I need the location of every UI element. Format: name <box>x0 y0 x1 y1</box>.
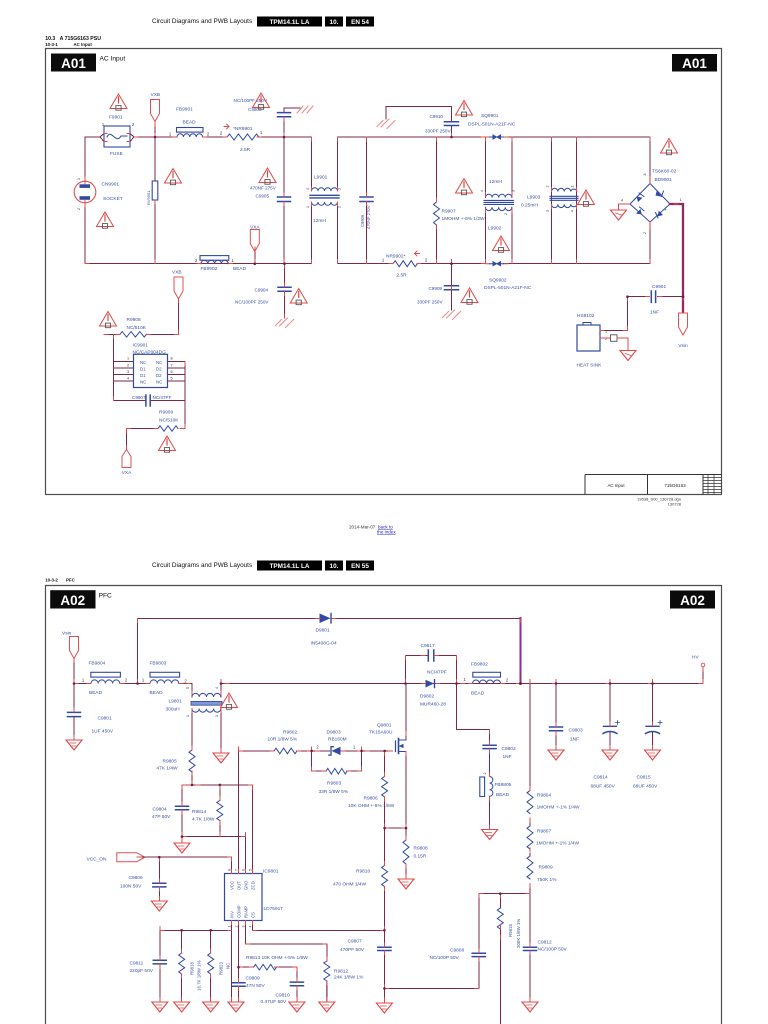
svg-text:68UF 450V: 68UF 450V <box>633 784 658 790</box>
wire RAMP net <box>246 921 327 962</box>
svg-text:AC Input: AC Input <box>100 56 126 63</box>
svg-text:1: 1 <box>571 186 575 188</box>
svg-text:3: 3 <box>546 210 550 212</box>
ground C9807 <box>376 1003 392 1013</box>
svg-text:C9808: C9808 <box>450 948 464 954</box>
svg-text:CN9901: CN9901 <box>102 182 120 188</box>
warning triangle below L9902 <box>493 236 510 252</box>
ground C9806 <box>151 901 167 911</box>
svg-text:3: 3 <box>338 188 342 190</box>
wire L9801 aux down <box>191 709 193 785</box>
warning triangle above C9905 <box>259 168 276 184</box>
svg-text:0.47UF 50V: 0.47UF 50V <box>261 999 287 1005</box>
title block <box>585 475 722 507</box>
svg-text:EN 55: EN 55 <box>351 563 369 570</box>
ground C9815 <box>645 750 661 760</box>
svg-text:715G6163: 715G6163 <box>664 483 686 488</box>
svg-text:C9909: C9909 <box>428 286 442 291</box>
svg-text:200K 1/8W 1%: 200K 1/8W 1% <box>516 919 521 948</box>
page 1 top header <box>45 17 374 47</box>
svg-text:C9806: C9806 <box>129 875 143 881</box>
svg-text:1: 1 <box>142 678 145 683</box>
warning triangle below socket <box>97 212 114 228</box>
svg-text:GND: GND <box>244 881 249 890</box>
wire R9907 vertical <box>436 137 438 264</box>
varistor RV9901 <box>152 181 158 200</box>
svg-text:PFC: PFC <box>66 578 76 583</box>
svg-text:3: 3 <box>242 926 246 928</box>
svg-text:1MOHM +-1% 1/4W: 1MOHM +-1% 1/4W <box>536 841 580 847</box>
svg-text:4: 4 <box>215 687 219 689</box>
svg-text:FB9901: FB9901 <box>176 107 193 113</box>
svg-text:1UF 450V: 1UF 450V <box>92 729 114 735</box>
svg-text:2: 2 <box>207 132 210 137</box>
svg-text:L9901: L9901 <box>314 175 328 181</box>
svg-text:R9815: R9815 <box>508 924 513 937</box>
svg-text:R9803: R9803 <box>327 781 341 787</box>
svg-text:2: 2 <box>316 745 319 750</box>
svg-text:1MOHM +-5% 1/2W: 1MOHM +-5% 1/2W <box>442 216 486 222</box>
svg-text:16.7K 1/8W 1%: 16.7K 1/8W 1% <box>197 960 202 991</box>
svg-text:BEAD: BEAD <box>471 691 485 697</box>
svg-text:2: 2 <box>338 206 342 208</box>
warning triangle right of L9903 <box>578 190 595 206</box>
svg-text:4.7K 1/8W: 4.7K 1/8W <box>192 817 215 823</box>
svg-text:HS9102: HS9102 <box>577 313 595 319</box>
ground C9803 <box>548 750 564 760</box>
svg-text:2: 2 <box>506 678 509 683</box>
svg-text:300uH: 300uH <box>166 707 181 713</box>
warning triangle near RV9901 <box>165 169 182 185</box>
wire L9801 right to ground <box>220 709 222 753</box>
ground R9812 <box>319 1002 335 1012</box>
ground C9810 <box>289 1002 305 1012</box>
svg-text:1: 1 <box>127 357 129 361</box>
svg-text:1NF: 1NF <box>503 754 512 760</box>
red terminal stubs page1 <box>85 117 683 450</box>
wire C9903 C9905 vertical <box>284 108 300 264</box>
svg-text:5: 5 <box>186 687 190 689</box>
wire C9909 stem <box>451 264 453 310</box>
earth ground C9910 <box>377 119 395 129</box>
svg-text:BEAD: BEAD <box>496 792 510 798</box>
svg-text:2: 2 <box>127 364 129 368</box>
svg-text:2: 2 <box>546 186 550 188</box>
svg-text:SQ9902: SQ9902 <box>489 278 507 284</box>
svg-text:D9803: D9803 <box>327 730 341 736</box>
svg-text:1: 1 <box>306 206 310 208</box>
svg-text:NC: NC <box>140 380 146 385</box>
wire L9903 cell verticals <box>552 137 577 264</box>
svg-text:1: 1 <box>680 198 682 202</box>
svg-text:8: 8 <box>228 869 232 871</box>
svg-text:BEAD: BEAD <box>233 266 247 272</box>
wire purple D9801 to rail <box>519 618 521 683</box>
svg-text:220pF 50V: 220pF 50V <box>130 968 154 974</box>
svg-text:F9901: F9901 <box>109 115 123 121</box>
svg-text:2: 2 <box>132 122 135 127</box>
wire VXB vertical <box>154 122 156 264</box>
svg-text:LD7591T: LD7591T <box>264 906 284 912</box>
svg-text:BD9901: BD9901 <box>655 177 673 183</box>
svg-text:NC/100P 50V: NC/100P 50V <box>430 955 460 961</box>
svg-text:68UF 450V: 68UF 450V <box>591 784 616 790</box>
svg-text:C9907: C9907 <box>132 395 146 400</box>
wire ZCD net <box>182 785 253 874</box>
svg-text:TK15A60U: TK15A60U <box>369 730 393 736</box>
svg-text:VCC_ON: VCC_ON <box>87 857 108 863</box>
svg-text:47N 50V: 47N 50V <box>246 983 265 989</box>
wire VCC net <box>137 857 232 873</box>
wire OUT pin to R9802 <box>238 751 240 874</box>
svg-text:7: 7 <box>171 364 173 368</box>
wire GND net to pin6 <box>182 837 246 874</box>
warning triangle above fuse <box>110 94 127 110</box>
svg-text:L9801: L9801 <box>169 699 183 705</box>
svg-text:2: 2 <box>77 208 81 210</box>
wire C9910 stem <box>386 107 452 138</box>
svg-text:R9818: R9818 <box>190 962 195 975</box>
svg-text:7: 7 <box>235 869 239 871</box>
svg-text:INV: INV <box>230 911 235 918</box>
svg-text:MUR460-28: MUR460-28 <box>420 702 446 708</box>
wire VXA stub <box>254 247 256 264</box>
A02 box right <box>670 591 715 609</box>
svg-text:TPM14.1L LA: TPM14.1L LA <box>269 563 309 570</box>
svg-text:A01: A01 <box>682 56 707 71</box>
svg-text:3: 3 <box>127 370 129 374</box>
flag VXA lower <box>126 429 128 451</box>
power ground heat sink <box>620 351 636 361</box>
svg-text:10-3-1: 10-3-1 <box>45 42 58 47</box>
svg-text:D1: D1 <box>140 367 146 372</box>
svg-text:+: + <box>665 208 668 213</box>
svg-text:2: 2 <box>184 679 187 684</box>
page 2 top header <box>45 561 374 583</box>
ground C9814 <box>602 750 618 760</box>
svg-text:TPM14.1L LA: TPM14.1L LA <box>269 19 309 26</box>
svg-text:D2: D2 <box>156 367 162 372</box>
bead FB9902 <box>200 256 229 261</box>
svg-text:2: 2 <box>195 258 198 263</box>
wire L9901 verticals <box>312 137 338 264</box>
svg-text:R9812: R9812 <box>334 969 348 975</box>
svg-text:C9904: C9904 <box>255 288 269 293</box>
svg-text:12mH: 12mH <box>489 179 502 185</box>
svg-text:IC9801: IC9801 <box>263 869 279 875</box>
warning triangle left of R9908 <box>100 312 117 328</box>
svg-text:2.5R: 2.5R <box>240 147 251 153</box>
svg-text:2: 2 <box>504 213 508 215</box>
svg-text:Q9801: Q9801 <box>377 723 392 729</box>
wire bridge left vertex to ground <box>619 204 631 210</box>
svg-text:IC9901: IC9901 <box>133 343 149 349</box>
svg-text:1: 1 <box>228 926 232 928</box>
ground R9823 <box>203 1002 219 1012</box>
svg-text:R9810: R9810 <box>356 869 370 875</box>
svg-text:4: 4 <box>127 377 129 381</box>
svg-text:24K 1/8W 1%: 24K 1/8W 1% <box>334 975 364 981</box>
svg-text:2014-Mar-07: 2014-Mar-07 <box>349 525 376 530</box>
svg-text:0.15R: 0.15R <box>414 854 427 860</box>
svg-text:C9906: C9906 <box>360 214 365 227</box>
svg-text:C9910: C9910 <box>429 114 443 119</box>
warning triangle near C9904 <box>290 289 307 305</box>
svg-text:C9804: C9804 <box>153 807 167 813</box>
warning triangle near C9903 <box>253 93 270 109</box>
svg-text:C9817: C9817 <box>421 643 435 649</box>
svg-text:HV: HV <box>692 655 699 661</box>
svg-text:2: 2 <box>220 131 223 136</box>
svg-text:330PF 250V: 330PF 250V <box>425 129 451 134</box>
wire left loop verticals <box>84 137 86 264</box>
svg-text:NC/510K: NC/510K <box>159 417 179 423</box>
svg-text:Vsin: Vsin <box>62 631 72 637</box>
svg-text:NC/510K: NC/510K <box>127 325 147 331</box>
svg-text:FB9804: FB9804 <box>89 661 106 667</box>
svg-text:D9801: D9801 <box>316 628 330 634</box>
svg-text:*NR9901: *NR9901 <box>233 126 253 132</box>
svg-text:C9905: C9905 <box>256 194 270 199</box>
ground C9801 <box>66 740 82 750</box>
svg-text:47K 1/4W: 47K 1/4W <box>157 766 179 772</box>
svg-text:NR9902*: NR9902* <box>386 254 406 260</box>
svg-text:2: 2 <box>425 258 428 263</box>
svg-text:1: 1 <box>260 130 263 135</box>
svg-text:330PF 250V: 330PF 250V <box>417 300 443 305</box>
svg-text:OUT: OUT <box>237 881 242 890</box>
svg-text:VCC: VCC <box>230 881 235 890</box>
page 2 frame (bottom cut off) <box>46 586 722 1024</box>
svg-text:A01: A01 <box>61 56 86 71</box>
power ground bridge <box>611 210 627 220</box>
svg-text:A02: A02 <box>60 593 85 608</box>
ground R9818 <box>174 1002 190 1012</box>
svg-text:470NF 275V: 470NF 275V <box>250 186 277 191</box>
svg-text:C9815: C9815 <box>637 775 651 781</box>
svg-text:C9812: C9812 <box>538 940 552 946</box>
svg-text:TS6K60-02: TS6K60-02 <box>652 169 677 175</box>
svg-text:6: 6 <box>242 869 246 871</box>
svg-text:R9813 10K OHM +-5% 1/8W: R9813 10K OHM +-5% 1/8W <box>246 955 308 961</box>
svg-text:DSPL-501N-A21F-NC: DSPL-501N-A21F-NC <box>484 285 532 291</box>
svg-text:0.25mH: 0.25mH <box>521 203 538 209</box>
svg-text:BEAD: BEAD <box>89 690 103 696</box>
warning triangle above bridge <box>661 139 678 155</box>
resistor NR9901 <box>224 124 229 129</box>
svg-text:SQ9901: SQ9901 <box>481 113 499 119</box>
svg-text:NC: NC <box>140 360 146 365</box>
svg-text:R9808: R9808 <box>414 846 428 852</box>
svg-text:5: 5 <box>171 377 173 381</box>
svg-text:470PF 50V: 470PF 50V <box>340 947 365 953</box>
svg-text:1: 1 <box>82 678 85 683</box>
svg-text:BEAD: BEAD <box>150 690 164 696</box>
svg-text:2.5R: 2.5R <box>397 273 408 279</box>
ground L9801 <box>213 753 229 763</box>
svg-text:2: 2 <box>643 232 647 234</box>
A01 box right <box>672 54 717 72</box>
svg-text:NC/47PF: NC/47PF <box>153 395 172 400</box>
A01 box left <box>51 54 96 72</box>
ground C9809 <box>228 1002 244 1012</box>
svg-text:10.: 10. <box>330 19 339 26</box>
svg-text:2: 2 <box>125 678 128 683</box>
svg-text:A02: A02 <box>680 593 705 608</box>
warning triangle near C9909 <box>461 288 478 304</box>
ground C9812 <box>522 1002 538 1012</box>
svg-text:10.: 10. <box>330 563 339 570</box>
svg-text:HEAT SINK: HEAT SINK <box>577 363 603 369</box>
ground C9804 <box>181 837 183 843</box>
svg-text:R9809: R9809 <box>539 865 553 871</box>
svg-text:FB9802: FB9802 <box>471 662 488 668</box>
svg-text:4: 4 <box>306 188 310 190</box>
svg-text:R9802: R9802 <box>283 730 297 736</box>
svg-text:1NF: 1NF <box>570 737 579 743</box>
svg-text:R9805: R9805 <box>163 759 177 765</box>
ground FB9805 <box>482 830 498 840</box>
wire main rail page2 <box>74 684 703 698</box>
svg-text:3: 3 <box>643 173 647 175</box>
svg-text:100N 50V: 100N 50V <box>120 884 142 890</box>
wire top rail right <box>338 136 651 138</box>
svg-text:the index: the index <box>377 530 396 535</box>
svg-text:D1: D1 <box>140 373 146 378</box>
svg-text:33R 1/8W 5%: 33R 1/8W 5% <box>319 789 349 795</box>
svg-text:2: 2 <box>483 773 487 775</box>
earth ground C9909 <box>443 310 461 320</box>
earth ground C9904 <box>276 318 294 328</box>
footer date + links <box>349 525 396 535</box>
svg-text:12mH: 12mH <box>313 218 326 224</box>
svg-text:C9803: C9803 <box>569 728 583 734</box>
svg-text:RB160M: RB160M <box>328 737 347 743</box>
svg-text:NC/100P 50V: NC/100P 50V <box>538 947 568 953</box>
wire C9801 stem <box>73 684 75 740</box>
svg-text:C9809: C9809 <box>246 976 260 982</box>
svg-text:PFC: PFC <box>99 593 112 600</box>
wire C9904 stem <box>284 264 286 318</box>
junction dots page1 <box>154 136 685 298</box>
svg-text:R9804: R9804 <box>537 793 551 799</box>
svg-text:C9807: C9807 <box>348 939 362 945</box>
svg-text:47P 50V: 47P 50V <box>152 814 171 820</box>
svg-text:FB9805: FB9805 <box>495 782 512 788</box>
svg-text:EN 54: EN 54 <box>351 19 369 26</box>
svg-text:10R 1/8W 5%: 10R 1/8W 5% <box>268 737 298 743</box>
svg-text:IN5408G-04: IN5408G-04 <box>311 641 337 647</box>
svg-text:R9807: R9807 <box>537 829 551 835</box>
wire bridge cell <box>649 137 651 264</box>
wire CS net <box>253 921 385 931</box>
svg-text:1: 1 <box>186 715 190 717</box>
svg-text:COMP: COMP <box>237 905 242 918</box>
svg-text:5: 5 <box>249 869 253 871</box>
svg-text:1: 1 <box>353 745 356 750</box>
svg-text:1: 1 <box>605 330 607 334</box>
svg-text:3: 3 <box>512 190 516 192</box>
svg-text:1: 1 <box>382 258 385 263</box>
svg-text:6: 6 <box>171 370 173 374</box>
svg-text:R9823: R9823 <box>219 962 224 975</box>
svg-text:4: 4 <box>249 926 253 928</box>
svg-text:AC Input: AC Input <box>607 483 625 488</box>
svg-text:RV9901: RV9901 <box>146 190 151 205</box>
svg-text:C9810: C9810 <box>276 993 290 999</box>
red terminal stubs page2 <box>74 618 703 1002</box>
svg-text:10-3-2: 10-3-2 <box>45 578 58 583</box>
svg-text:3: 3 <box>215 715 219 717</box>
svg-text:C9801: C9801 <box>98 716 112 722</box>
svg-text:VXB: VXB <box>151 92 161 98</box>
warning triangle below R9909 <box>159 436 176 452</box>
wire bridge output thick purple <box>670 204 683 312</box>
svg-text:SOCKET: SOCKET <box>103 196 123 202</box>
svg-text:FB9803: FB9803 <box>150 661 167 667</box>
svg-text:Circuit Diagrams and PWB Layou: Circuit Diagrams and PWB Layouts <box>152 562 252 569</box>
wire VXB lower to R9908 <box>178 299 180 334</box>
svg-text:C9814: C9814 <box>594 775 608 781</box>
svg-text:NC: NC <box>226 963 231 969</box>
svg-text:1: 1 <box>231 258 234 263</box>
svg-text:10K OHM +-5% 1/8W: 10K OHM +-5% 1/8W <box>348 803 395 809</box>
fuse F9901 <box>104 126 130 147</box>
svg-text:FUSE: FUSE <box>110 151 123 157</box>
svg-text:D2: D2 <box>156 373 162 378</box>
wire bottom rail <box>85 263 650 265</box>
wire C9906 vertical <box>366 137 368 264</box>
svg-text:4: 4 <box>621 199 623 203</box>
svg-text:470NF 270V: 470NF 270V <box>366 205 371 229</box>
wire top rail left <box>85 134 312 142</box>
svg-text:VXA: VXA <box>122 470 132 476</box>
svg-text:NC: NC <box>156 360 162 365</box>
junction dots page2 <box>73 682 654 990</box>
svg-text:130728: 130728 <box>668 502 682 507</box>
warning triangle middle cell <box>456 179 473 195</box>
svg-text:R9909: R9909 <box>159 410 173 416</box>
svg-text:ZCD: ZCD <box>251 881 256 890</box>
warning triangle near C9910 <box>456 101 473 117</box>
svg-text:Circuit Diagrams and PWB Layou: Circuit Diagrams and PWB Layouts <box>152 18 252 25</box>
svg-text:RAMP: RAMP <box>244 906 249 918</box>
svg-text:NC/100PF 250V: NC/100PF 250V <box>234 98 268 103</box>
socket CN9901 <box>74 181 96 203</box>
svg-text:L9903: L9903 <box>527 195 541 201</box>
svg-text:C9901: C9901 <box>652 284 666 290</box>
wire INV bus <box>160 921 232 1002</box>
svg-text:1: 1 <box>463 677 466 682</box>
svg-text:470 OHM 1/4W: 470 OHM 1/4W <box>333 882 367 888</box>
svg-text:C9811: C9811 <box>130 961 144 967</box>
svg-text:D9802: D9802 <box>420 694 434 700</box>
svg-text:R9908: R9908 <box>127 317 141 323</box>
flag Vsin page1 <box>679 313 688 335</box>
svg-text:VXB: VXB <box>172 270 182 276</box>
svg-text:1: 1 <box>169 132 172 137</box>
svg-text:AC Input: AC Input <box>74 42 93 47</box>
svg-text:DSPL-501N-A21F-NC: DSPL-501N-A21F-NC <box>468 122 516 128</box>
svg-text:R9814: R9814 <box>192 809 206 815</box>
svg-text:Vsin: Vsin <box>678 343 688 349</box>
wire Vsin stem <box>73 658 75 684</box>
svg-text:CS: CS <box>251 912 256 918</box>
svg-text:L9902: L9902 <box>488 226 502 232</box>
svg-text:4: 4 <box>480 190 484 192</box>
svg-text:R9907: R9907 <box>442 209 456 215</box>
wire L9902 cell verticals <box>486 137 513 264</box>
